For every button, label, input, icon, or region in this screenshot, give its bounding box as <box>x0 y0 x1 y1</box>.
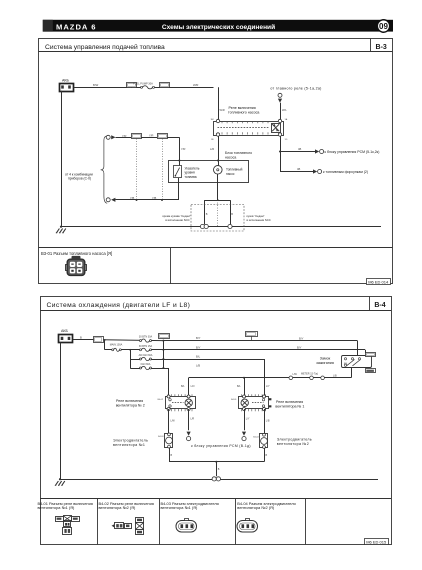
svg-text:B/Y: B/Y <box>297 346 302 350</box>
svg-text:B/Y: B/Y <box>196 346 201 350</box>
svg-text:топлива: топлива <box>185 175 197 179</box>
svg-text:к блоку управления PCM (В-1д): к блоку управления PCM (В-1д) <box>191 444 251 448</box>
svg-text:вентилятора №1 (Я): вентилятора №1 (Я) <box>38 505 76 510</box>
svg-text:L/W: L/W <box>293 373 298 376</box>
svg-text:АКБ: АКБ <box>61 329 68 333</box>
svg-text:Y/B: Y/B <box>130 196 134 200</box>
svg-text:Y/B: Y/B <box>152 196 156 200</box>
svg-text:1M: 1M <box>210 119 213 121</box>
svg-text:вентилятора №2: вентилятора №2 <box>277 442 309 446</box>
svg-text:METER 15-7(а): METER 15-7(а) <box>301 373 318 376</box>
svg-text:B/L: B/L <box>181 385 185 388</box>
svg-text:Y/R: Y/R <box>122 134 126 138</box>
svg-text:Система охлаждения (двигатели: Система охлаждения (двигатели LF и L8) <box>47 302 191 309</box>
svg-text:B4-04: B4-04 <box>253 436 259 438</box>
svg-text:B4-03: B4-03 <box>158 436 164 438</box>
svg-text:к блоку управления PCM (5-1к,2: к блоку управления PCM (5-1к,2к) <box>325 150 380 154</box>
svg-text:Y/R: Y/R <box>149 133 153 137</box>
svg-text:FUEL PUMP 30A: FUEL PUMP 30A <box>133 82 153 86</box>
svg-text:насос: насос <box>226 172 235 176</box>
svg-text:топливного насоса: топливного насоса <box>228 111 259 115</box>
svg-text:Система управления подачей топ: Система управления подачей топлива <box>45 43 165 51</box>
svg-text:B/Y: B/Y <box>299 336 304 340</box>
svg-text:30 BTN 30A: 30 BTN 30A <box>139 336 153 339</box>
svg-text:L/B: L/B <box>266 420 270 423</box>
svg-text:B4-01: B4-01 <box>231 399 237 401</box>
svg-text:B: B <box>80 335 82 339</box>
svg-text:4B: 4B <box>298 147 301 151</box>
svg-text:M6 ED 015: M6 ED 015 <box>366 540 387 545</box>
svg-text:Замок: Замок <box>320 356 331 360</box>
svg-text:1D: 1D <box>285 139 288 141</box>
svg-text:вентилятора № 2: вентилятора № 2 <box>116 404 145 408</box>
svg-text:АКБ: АКБ <box>62 78 69 82</box>
svg-text:вентилятора № 1: вентилятора № 1 <box>275 405 304 409</box>
svg-text:B: B <box>231 212 233 216</box>
svg-text:B4-02: B4-02 <box>158 399 164 401</box>
svg-text:B/L: B/L <box>196 355 201 359</box>
svg-text:вентилятора №1: вентилятора №1 <box>113 443 145 447</box>
svg-text:L/Y: L/Y <box>246 418 250 421</box>
svg-text:Электродвигатель: Электродвигатель <box>113 438 148 442</box>
svg-text:вентилятора №2 (Я): вентилятора №2 (Я) <box>237 505 275 510</box>
svg-text:вентилятора №2 (Я): вентилятора №2 (Я) <box>99 505 137 510</box>
svg-text:L/Y: L/Y <box>266 385 270 388</box>
svg-text:Схемы электрических соединений: Схемы электрических соединений <box>162 23 275 31</box>
svg-text:09: 09 <box>379 22 388 31</box>
svg-text:Реле включения: Реле включения <box>116 399 143 403</box>
svg-text:в исполнении SCC: в исполнении SCC <box>247 218 271 222</box>
svg-text:Электродвигатель: Электродвигатель <box>277 437 312 441</box>
svg-text:B/Y: B/Y <box>196 336 201 340</box>
svg-text:B-4: B-4 <box>374 302 385 309</box>
svg-text:в исполнении SCC: в исполнении SCC <box>165 218 189 222</box>
svg-text:от главного реле (5-1а,2а): от главного реле (5-1а,2а) <box>270 86 321 90</box>
svg-text:4B: 4B <box>297 167 300 171</box>
svg-text:L/B: L/B <box>196 364 200 368</box>
svg-text:W/R: W/R <box>220 108 225 112</box>
svg-text:L/W: L/W <box>170 420 175 423</box>
svg-text:B/L: B/L <box>237 385 241 388</box>
svg-text:B3-01 Разъем топливного насоса: B3-01 Разъем топливного насоса [Я] <box>41 251 112 256</box>
svg-text:MAZDA 6: MAZDA 6 <box>56 22 96 31</box>
svg-text:AD FAN 30A: AD FAN 30A <box>139 354 153 357</box>
svg-text:к топливным форсункам (2): к топливным форсункам (2) <box>323 170 368 174</box>
svg-text:M6 ED 014: M6 ED 014 <box>368 280 389 285</box>
svg-text:насоса: насоса <box>225 156 236 160</box>
svg-text:B: B <box>206 212 208 216</box>
svg-text:L/O: L/O <box>191 385 195 388</box>
svg-text:W/L: W/L <box>282 108 287 112</box>
svg-text:Реле включения: Реле включения <box>229 106 256 110</box>
svg-text:L/R: L/R <box>190 418 194 421</box>
svg-text:B/W: B/W <box>93 83 99 87</box>
svg-text:MAIN 100A: MAIN 100A <box>110 343 123 346</box>
svg-text:B-3: B-3 <box>376 44 387 51</box>
svg-text:30 BTN 15A: 30 BTN 15A <box>139 345 153 348</box>
svg-text:Блок топливного: Блок топливного <box>225 151 252 155</box>
svg-text:L/B: L/B <box>333 374 337 377</box>
svg-text:L/R: L/R <box>210 147 214 151</box>
svg-text:приборов (C-б): приборов (C-б) <box>68 177 91 181</box>
svg-text:Y/R: Y/R <box>181 147 185 151</box>
svg-text:вентилятора №1 (Я): вентилятора №1 (Я) <box>161 505 199 510</box>
svg-text:Реле включения: Реле включения <box>276 400 303 404</box>
svg-text:зажигания: зажигания <box>316 361 334 365</box>
svg-text:FAN 30A: FAN 30A <box>141 363 151 366</box>
svg-text:W/R: W/R <box>193 83 198 87</box>
